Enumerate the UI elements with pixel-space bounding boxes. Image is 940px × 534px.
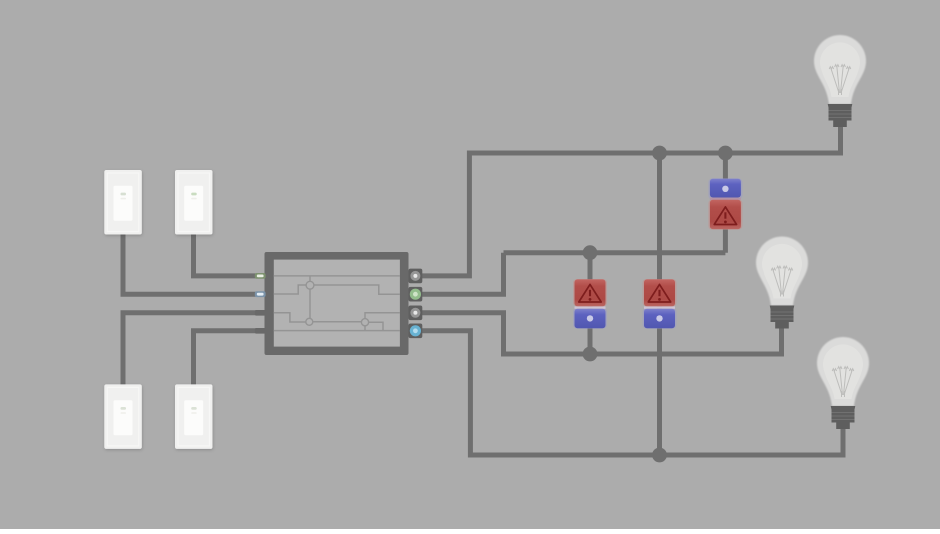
component F2 (red warning block over blue block): [643, 279, 677, 329]
hub right port R3: [409, 306, 423, 321]
wire component F3 branch: [723, 153, 728, 253]
wire hub port R4 down to bottom rail and to bulb L3: [420, 331, 843, 455]
hub relay circle A: [306, 281, 314, 289]
hub left port L3: [255, 310, 266, 316]
switch SW4: [175, 384, 213, 449]
wire switch SW2 to hub port L1: [194, 234, 267, 276]
wire hub port R1 up to top rail and to bulb L1: [420, 119, 841, 276]
junction dot at top rail / F2: [652, 146, 667, 161]
hub right port R4 (cyan): [409, 324, 423, 339]
hub right port R1: [409, 269, 423, 284]
component F3 (blue block over red warning block): [708, 178, 742, 230]
component F1 (red warning block over blue block): [573, 279, 607, 329]
wire hub port R3 down to rail y353 and to bulb L2: [420, 313, 782, 354]
wire switch SW3 to hub port L3: [123, 313, 266, 386]
hub left port L4: [255, 328, 266, 334]
bulb lamp L1: [814, 35, 866, 127]
hub internal traces: [274, 276, 400, 331]
switch SW2: [175, 170, 213, 235]
wire switch SW4 to hub port L4: [194, 331, 267, 386]
wire component F1 branch: [588, 253, 593, 354]
switch SW3: [104, 384, 142, 449]
junction dot at bottom rail / F2: [652, 448, 667, 463]
junction dot at top rail / F3: [718, 146, 733, 161]
hub relay circle C: [361, 319, 368, 326]
wire middle rail y252: [504, 250, 726, 255]
switch SW1: [104, 170, 142, 235]
bulb lamp L3: [817, 337, 869, 429]
wire hub port R2 up to middle rail: [420, 253, 504, 295]
hub controller U1 body: [265, 252, 409, 355]
hub right port R2 (green): [409, 287, 423, 302]
hub left port L2 (blue): [255, 291, 266, 297]
junction dot at rail3 / F1 bottom: [583, 347, 598, 362]
junction dot at rail2 / F1 top: [583, 245, 598, 260]
hub left port L1 (green): [255, 273, 266, 279]
wire switch SW1 to hub port L2: [123, 234, 266, 294]
hub relay circle B: [306, 318, 313, 325]
wire component F2 branch: [657, 153, 662, 455]
bulb lamp L2: [756, 237, 808, 329]
